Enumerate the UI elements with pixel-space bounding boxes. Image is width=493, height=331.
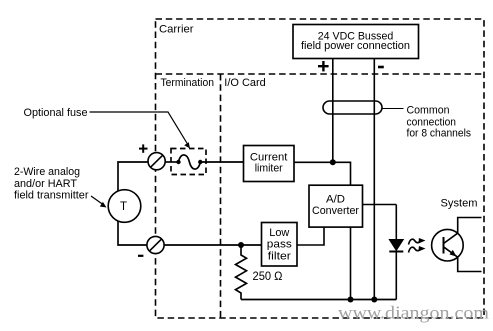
svg-text:A/D: A/D [326,194,345,206]
phototransistor collector lead [444,218,482,244]
svg-text:for 8 channels: for 8 channels [407,128,472,140]
junction: -24V bus / bottom bus [371,297,377,303]
A/D converter block [309,185,363,227]
light emission arrows (optocoupler) [409,238,426,253]
phototransistor Q1 (circle) [432,229,464,261]
svg-text:2-Wire analog: 2-Wire analog [14,166,80,178]
svg-text:field power connection: field power connection [301,40,410,52]
svg-text:Low: Low [269,227,289,239]
svg-text:T: T [120,201,127,213]
wire: A/D converter ground lead [350,227,352,299]
svg-text:I/O Card: I/O Card [224,77,265,89]
wire: +24V bus from power box down to current limiter output node [332,59,334,163]
resistor 250 ohm [236,245,247,300]
common connection pill (8 channels) [323,101,382,114]
svg-text:and/or HART: and/or HART [14,178,77,190]
plus polarity mark (field terminal) [139,144,148,152]
wire: A/D output to LED [363,204,397,206]
wire: bottom common bus [241,299,396,301]
junction: current limiter / +24V bus [330,159,336,165]
wire: + terminal to fuse [165,161,178,163]
label 2-Wire analog and/or HART field transmitter [14,166,89,202]
minus polarity mark (field terminal) [138,255,143,257]
svg-text:Common: Common [407,105,450,117]
transmitter T (circle) [108,190,141,223]
wire: low pass filter to A/D converter [297,227,324,245]
wire: -24V return bus from power box down to bottom bus [373,59,375,300]
wire: fuse to current limiter [200,161,243,163]
wire: LED anode lead [395,205,397,241]
fuse F1 (optional, dashed enclosure) [171,149,206,175]
svg-text:filter: filter [268,250,291,262]
svg-text:Converter: Converter [312,205,359,217]
label Common connection for 8 channels [407,105,472,140]
svg-text:Current: Current [250,151,288,163]
termination / I/O card divider (dashed line) [220,74,222,318]
leader arrow from Optional fuse label to fuse [90,112,191,149]
wire: transmitter - lead (down and right to - terminal) [118,221,147,245]
terminal - (circle with slash) [147,236,164,253]
24 VDC bussed field power connection box [293,25,419,59]
svg-text:System: System [441,198,478,210]
svg-text:Carrier: Carrier [159,24,194,36]
terminal + (circle with slash) [148,153,165,170]
LED D1 (optocoupler emitter) [389,240,403,252]
svg-text:limiter: limiter [255,163,283,175]
svg-text:www.diangon.com: www.diangon.com [338,303,489,323]
wire: - terminal to low pass filter [164,244,261,246]
termination / I/O card top boundary (dashed line) [156,73,485,75]
leader arrow from transmitter label to transmitter [91,196,107,208]
leader line to common connection label [383,108,404,110]
carrier boundary (dashed box) [156,19,485,318]
junction: A/D ground / bottom bus [348,297,354,303]
junction: - wire / 250 ohm resistor [238,242,244,248]
wire: LED cathode lead to bottom bus [395,252,397,300]
minus polarity mark (24VDC) [378,66,384,69]
plus polarity mark (24VDC) [318,61,329,71]
low pass filter block [262,223,298,267]
svg-text:pass: pass [267,239,293,251]
wire: transmitter + lead (up and right to + terminal) [118,162,148,192]
wire: current limiter output to +24V node and A/D converter [294,162,351,185]
current limiter block [244,146,295,182]
svg-text:field transmitter: field transmitter [14,190,89,202]
phototransistor emitter lead with arrow [444,247,482,272]
svg-text:250 Ω: 250 Ω [253,271,283,283]
phototransistor base bar [443,237,445,254]
svg-text:Optional fuse: Optional fuse [24,107,88,119]
svg-text:Termination: Termination [161,77,215,89]
